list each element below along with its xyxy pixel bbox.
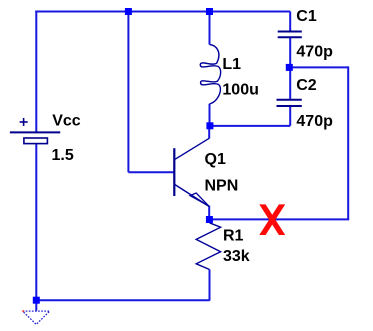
svg-text:R1: R1	[223, 228, 244, 245]
wire C1C2 junction to right	[289, 66, 348, 68]
battery V1 top plate	[10, 131, 60, 133]
wire base horizontal	[128, 171, 174, 173]
svg-text:NPN: NPN	[205, 177, 239, 194]
ground symbol	[23, 311, 50, 324]
wire bottom right horizontal to emitter	[209, 218, 349, 220]
wire emitter stub	[208, 206, 210, 220]
wire collector stub	[208, 126, 210, 139]
junction node top-left (base net)	[125, 8, 132, 15]
capacitor C2 plates	[277, 99, 302, 101]
red X mark	[259, 204, 285, 235]
junction node collector / L1 bottom	[206, 122, 213, 129]
transistor Q1 base bar	[173, 148, 175, 196]
wire left vertical (Vcc top lead)	[35, 11, 37, 133]
resistor R1 zigzag	[196, 223, 220, 270]
wire battery bottom lead	[35, 144, 37, 301]
svg-text:C1: C1	[296, 8, 317, 25]
wire C1 top stem	[289, 12, 291, 32]
wire base drop vertical	[127, 12, 129, 173]
capacitor C1 plates	[278, 31, 302, 33]
wire C2 top stem	[289, 67, 291, 99]
svg-text:33k: 33k	[223, 248, 250, 265]
junction node emitter / R1 top	[206, 216, 213, 223]
battery plus sign	[20, 121, 28, 123]
transistor Q1 collector diagonal	[175, 138, 209, 159]
wire C1 bottom stem	[289, 37, 291, 67]
wire top horizontal	[35, 11, 290, 13]
junction node ground	[33, 297, 40, 304]
svg-text:470p: 470p	[296, 113, 333, 130]
wire C2 bottom to collector junction	[210, 125, 290, 127]
transistor Q1 emitter arrow	[190, 193, 209, 206]
junction node top (L1 top)	[206, 8, 213, 15]
inductor L1 coil	[200, 45, 220, 104]
wire ground stub	[35, 300, 37, 311]
wire L1 bottom lead	[209, 104, 211, 126]
battery V1 body rectangle	[24, 138, 48, 144]
svg-text:Q1: Q1	[205, 151, 226, 168]
svg-text:Vcc: Vcc	[52, 113, 81, 130]
svg-text:1.5: 1.5	[52, 147, 74, 164]
transistor Q1 emitter diagonal	[175, 185, 209, 207]
junction node C1-C2	[286, 64, 293, 71]
svg-text:100u: 100u	[222, 82, 258, 99]
wire L1 top lead	[209, 12, 211, 45]
wire C2 bottom stem	[289, 106, 291, 126]
svg-text:470p: 470p	[296, 44, 333, 61]
wire bottom horizontal to ground	[36, 299, 209, 301]
wire R1 bottom lead	[209, 270, 211, 301]
svg-text:L1: L1	[222, 56, 241, 73]
ground red speck	[22, 310, 24, 312]
svg-text:C2: C2	[296, 77, 317, 94]
wire right vertical	[347, 66, 349, 219]
